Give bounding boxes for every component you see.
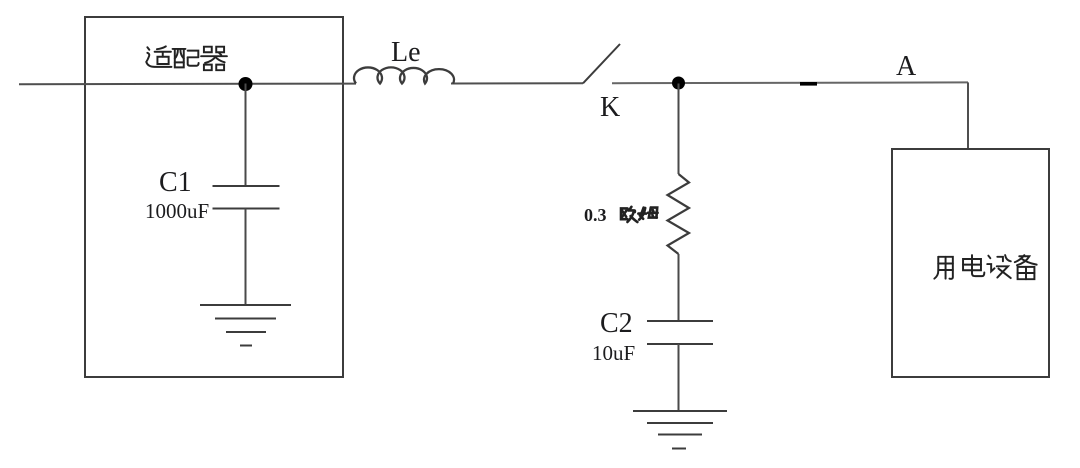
label 用电设备 [934,255,1036,279]
wire main horizontal left segment [19,83,356,86]
wire C1 vertical upper [245,84,247,187]
load box 用电设备 [892,149,1049,377]
svg-text:Le: Le [391,37,421,68]
svg-text:0.3: 0.3 [584,205,607,225]
wire resistor to C2 [678,254,680,321]
ground C1 [200,305,291,346]
switch K blade [583,44,620,83]
wire resistor branch upper [678,84,680,175]
node junction dot at C2 branch [672,77,685,90]
capacitor C2 [647,320,713,322]
svg-text:C1: C1 [159,167,192,198]
wire C2 to ground [678,344,680,411]
capacitor C1 [213,185,280,187]
wire corner down to load box [967,82,969,149]
svg-text:1000uF: 1000uF [145,199,209,223]
ground C2 [633,411,727,449]
wire switch right to corner A [612,81,968,84]
svg-text:10uF: 10uF [592,341,635,365]
svg-text:K: K [600,92,620,123]
wire inductor to switch [451,82,583,84]
label 适配器 [146,46,227,70]
node junction dot at adapter tap [239,77,253,91]
resistor 0.3 ohm zigzag [668,174,690,254]
inductor Le [354,67,454,83]
wire bold dash on line [800,82,817,86]
svg-text:C2: C2 [600,308,633,339]
wire C1 vertical lower [245,209,247,306]
svg-text:A: A [896,51,917,82]
adapter box 适配器 [85,17,343,377]
